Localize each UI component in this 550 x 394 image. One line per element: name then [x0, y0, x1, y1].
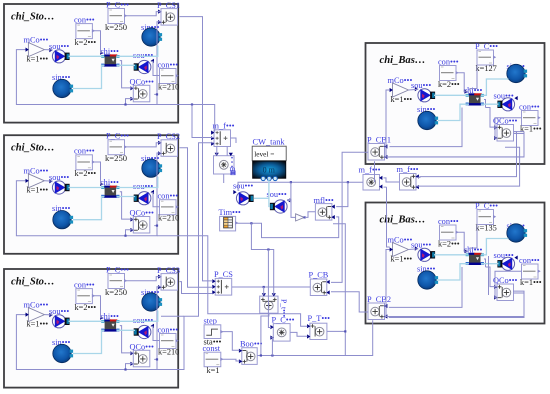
wire stub inside box3 on same net: [161, 315, 184, 317]
svg-text:k=1•••: k=1•••: [520, 278, 542, 287]
constant con3_2: [160, 334, 177, 349]
source pump sou2_1: [52, 181, 65, 194]
svg-text:sou•••: sou•••: [233, 182, 253, 191]
wire feedback to mCon (bas2): [386, 250, 390, 317]
sink sin2_1: [142, 159, 160, 177]
adder P_CS3: [161, 274, 178, 291]
group box chi_Sto1: [4, 4, 178, 123]
wire mfl area signal down to main line: [333, 224, 345, 356]
sink sin1_1: [142, 28, 160, 46]
chiller chi (bas2): [468, 253, 475, 255]
junction m_f1 line at 290.9: [290, 181, 292, 183]
wire QCo out right (bas1): [385, 134, 524, 158]
svg-text:k=1•••: k=1•••: [27, 186, 49, 195]
constant con1_2: [160, 69, 177, 84]
fluid line chi to sin1 (bas1): [481, 79, 509, 95]
wire QCo2 to P_CS2: [157, 153, 161, 226]
wire chi_Bas1 signal to m_f2 in2: [416, 147, 519, 186]
wire feedback tap to QCon1 minus input: [126, 99, 134, 105]
adder P_CS2: [161, 140, 178, 157]
fluid line sou1 to chi (bas1): [434, 94, 469, 96]
svg-text:sou•••: sou•••: [133, 182, 153, 191]
wire m_f2 out to m_f1 in1: [384, 178, 400, 182]
svg-text:mCo•••: mCo•••: [24, 167, 49, 176]
source pump sou3_1: [52, 315, 65, 328]
constant const: [204, 352, 221, 367]
svg-text:m_f•••: m_f•••: [213, 122, 235, 131]
source pump sou1 (bas1): [418, 89, 431, 102]
fluid line chi1 to sou1_2: [117, 64, 136, 66]
svg-text:P_T•••: P_T•••: [308, 314, 331, 323]
multisum m_f: [214, 130, 231, 147]
svg-text:k=135: k=135: [476, 224, 497, 233]
group box chi_Bas1: [366, 43, 545, 164]
gain mCon1: [28, 43, 44, 57]
source pump sou1_1: [52, 50, 65, 63]
wire feedback loop to mCon1: [16, 50, 157, 105]
sink sin2_2: [53, 211, 71, 229]
wire mCon2 to sou2_1: [45, 180, 53, 182]
adder m_f2 (mirrored): [400, 174, 417, 191]
fluid line sin2 to chi (bas2): [438, 264, 469, 280]
svg-text:level =: level =: [254, 150, 274, 159]
wire P_C to chi (bas2): [470, 225, 477, 251]
fluid line sou2_1 to chi2: [69, 187, 105, 189]
wire box3 lower signal up to m_f in3: [157, 143, 214, 370]
svg-text:k=127: k=127: [476, 64, 497, 73]
group box chi_Sto2: [4, 135, 178, 254]
wire P_T out joins vertical: [327, 330, 345, 332]
wire chi_Bas1 QCo to P_CB1 in2: [390, 132, 525, 157]
gain mCon3: [28, 308, 44, 322]
fluid line sin3_2 to chi3: [73, 330, 105, 353]
svg-text:sou•••: sou•••: [411, 241, 431, 250]
adder P_t rotated: [260, 296, 278, 313]
wire con2_1 to chi2: [93, 162, 104, 184]
svg-text:sou•••: sou•••: [133, 316, 153, 325]
wire m_f1 out long line to pumps: [238, 182, 363, 190]
junction m_f1 line at 347.9: [347, 181, 349, 183]
long signal line Boo to chi_Bas2: [258, 320, 373, 355]
wire P_CB1 bottom port down to m_f line: [374, 161, 376, 182]
wire into triangle input: [287, 200, 295, 218]
junction long line 1: [260, 354, 262, 356]
svg-text:sou•••: sou•••: [411, 81, 431, 90]
wire con2 to QCo (bas1): [495, 118, 522, 139]
fluid line chi to sin1 (bas2): [481, 239, 509, 255]
source pump sou3_2: [138, 325, 151, 338]
wire chi1 P out to QCon1: [120, 61, 134, 88]
svg-text:CW_tank: CW_tank: [253, 138, 286, 147]
constant con1 (bas1): [440, 66, 457, 81]
wire branch to P_C product in1: [268, 250, 271, 328]
gain mCon2: [28, 174, 44, 188]
fluid line chi2 to sou2_2: [117, 196, 136, 198]
dots beside product m: [231, 157, 233, 171]
group box chi_Bas2: [366, 203, 545, 324]
constant con2_1: [76, 155, 93, 170]
junction Tim line: [250, 222, 252, 224]
wire QCo1 to P_CS1: [157, 22, 161, 95]
fluid line sin2 to chi (bas1): [438, 104, 469, 120]
source pump sou1 (bas2): [418, 248, 431, 261]
svg-text:k=210: k=210: [158, 348, 179, 357]
wire chi_Bas2 QCo to P_CB2 in2: [389, 291, 524, 317]
sink sin3_2: [53, 344, 71, 362]
svg-text:k=210: k=210: [158, 83, 179, 92]
wire chi_Bas1 chi to P_CB1 in1: [390, 108, 463, 147]
fluid line chi1 to sin1_1: [117, 46, 158, 57]
wire feedback tap to QCon3 minus input: [126, 364, 134, 370]
chiller chi (bas1): [468, 93, 475, 95]
adder P_CB1: [368, 144, 385, 161]
constant P_C2: [108, 140, 125, 155]
sink sin1_2: [53, 79, 71, 97]
adder QCon2: [133, 217, 150, 234]
wire P_C1 to P_CS1: [125, 12, 161, 16]
wire con2_2 to sou2_2: [151, 193, 160, 207]
svg-text:Tim•••: Tim•••: [219, 208, 241, 217]
wire P_CB2 out to middle P_CB in2: [331, 292, 368, 312]
gain mCon (bas2): [393, 243, 409, 257]
wire feedback loop to mCon3: [16, 315, 157, 370]
wire up to P_C product in2: [271, 338, 272, 356]
wire Tim branch down: [251, 223, 273, 294]
svg-text:mCo•••: mCo•••: [24, 301, 49, 310]
junction long line 2: [271, 354, 273, 356]
wire chi_Bas2 chi to P_CB2 in1: [389, 267, 462, 307]
svg-text:k=1•••: k=1•••: [27, 55, 49, 64]
wire P_CS3 out to P_CS in3: [180, 282, 213, 294]
adder QCon1: [133, 85, 150, 102]
fluid line sou3_1 to chi3: [69, 320, 105, 322]
wire con1_1 to chi1: [93, 31, 104, 53]
constant P_C (bas1): [477, 50, 494, 65]
wire QCo out right (bas2): [385, 293, 524, 317]
svg-text:Boo•••: Boo•••: [240, 339, 263, 348]
wire P_C2 to P_CS2: [125, 143, 161, 147]
source pump sou2_2: [138, 192, 151, 205]
fluid line tank to pumps: [269, 179, 270, 207]
svg-text:P_CS: P_CS: [214, 270, 233, 279]
sink sin1 (bas1): [507, 64, 525, 82]
product m block: [214, 156, 235, 174]
svg-text:m_f•••: m_f•••: [397, 165, 419, 174]
svg-text:k=1•••: k=1•••: [520, 125, 542, 134]
wire chi P out down (bas1): [484, 100, 486, 108]
svg-text:k=1: k=1: [207, 366, 220, 375]
svg-text:k=1•••: k=1•••: [391, 255, 413, 264]
wire mfl out to triangle: [305, 212, 315, 218]
constant con3_1: [76, 289, 93, 304]
junction for P_t adder in1: [263, 286, 265, 288]
wire con1_2 to sou1_2: [151, 61, 160, 75]
wire P_CS1 out to P_CS in1 trunk: [180, 17, 213, 281]
wire chi to QCo (bas1): [486, 108, 498, 128]
wire box2 lower signal to P_T in1: [157, 236, 308, 327]
wire branch to m_f in2: [192, 105, 214, 138]
adder P_CS1: [161, 9, 178, 26]
wire mCon to sou1 (bas2): [409, 248, 419, 251]
svg-text:k=250: k=250: [105, 153, 127, 163]
wire P_C3 to P_CS3: [125, 277, 161, 281]
gain triangle small: [296, 214, 305, 221]
wire con1 to chi (bas2): [457, 232, 468, 251]
sink sin3_1: [142, 293, 160, 311]
svg-text:step: step: [204, 317, 217, 326]
svg-text:k=1•••: k=1•••: [391, 95, 413, 104]
wire branch to sou_m2 input: [287, 182, 291, 200]
svg-text:chi_Sto…: chi_Sto…: [11, 12, 55, 23]
source pump sou2 (bas1): [501, 98, 514, 111]
wire chi to QCo (bas2): [486, 267, 498, 287]
junction at triangle output: [304, 216, 306, 218]
fluid line sin2_2 to chi2: [73, 197, 105, 220]
fluid line chi to sou2 (bas1): [481, 103, 499, 105]
chiller chi2: [104, 186, 111, 188]
junction box1 signal branch: [191, 103, 193, 105]
source pump sou1_2: [138, 60, 151, 73]
wire mCon3 to sou3_1: [45, 314, 53, 316]
adder QCo (bas2): [497, 284, 514, 301]
adder QCon3: [133, 350, 150, 367]
wire chi_Bas1 QCo to m_f2 in1: [416, 132, 516, 178]
wire P_C product out to P_T in2: [290, 332, 307, 336]
wire product m out down: [223, 174, 225, 183]
adder QCo (bas1): [497, 125, 514, 142]
constant con1_1: [76, 24, 93, 39]
icon small grid: [231, 171, 236, 176]
constant con2_2: [160, 200, 177, 215]
gain mCon (bas1): [393, 83, 409, 97]
wire mCon to sou1 (bas1): [409, 88, 419, 91]
wire chi P out down (bas2): [484, 259, 486, 267]
svg-text:mCo•••: mCo•••: [388, 76, 413, 85]
vertical into chi_Bas2 area: [488, 256, 490, 295]
timetable Tim: [220, 216, 236, 231]
wire chi3 P out to QCon3: [120, 326, 134, 353]
svg-text:k=210: k=210: [158, 214, 179, 223]
adder P_CB2: [368, 303, 385, 320]
wire con2 to QCo (bas2): [495, 271, 522, 298]
svg-text:chi_Sto…: chi_Sto…: [11, 143, 55, 154]
wire step to Boo in1: [221, 332, 240, 351]
svg-text:chi_Sto…: chi_Sto…: [11, 277, 55, 288]
fluid line chi2 to sin2_1: [117, 177, 158, 188]
adder P_T: [310, 323, 327, 339]
multisum P_CS: [215, 278, 232, 295]
wire P_CB1 out to middle P_CB in1: [331, 152, 368, 282]
wire con3_2 to sou3_2: [151, 326, 160, 340]
wire box1 lower signal to m_f in1: [157, 105, 215, 132]
constant P_C1: [108, 9, 125, 24]
svg-text:k=2•••: k=2•••: [438, 80, 460, 89]
svg-text:mCo•••: mCo•••: [24, 36, 49, 45]
wire chi2 P out to QCon2: [120, 192, 134, 219]
sink sin2 (bas2): [418, 271, 436, 289]
source pump sou_m2: [274, 200, 287, 213]
svg-text:k=2•••: k=2•••: [438, 240, 460, 249]
constant con2 (bas2): [522, 264, 539, 279]
wire down to P_t adder in1: [263, 287, 265, 295]
svg-text:mCo•••: mCo•••: [388, 236, 413, 245]
svg-text:k=250: k=250: [105, 22, 127, 32]
junction P_T out: [344, 330, 346, 332]
wire P_t adder out down to main line: [261, 313, 269, 355]
wire con1 to chi (bas1): [457, 73, 468, 92]
wire mCon1 to sou1_1: [45, 49, 53, 51]
step block: [204, 325, 221, 339]
svg-text:k=2•••: k=2•••: [75, 38, 97, 47]
svg-text:0 m: 0 m: [263, 166, 276, 175]
adder P_CB (mirrored): [310, 279, 327, 296]
wire down from m_f1 in2 to chi_Bas2 mCon: [384, 186, 387, 188]
svg-text:k=2•••: k=2•••: [75, 303, 97, 312]
wire QCo3 to P_CS3: [157, 287, 161, 360]
svg-text:k=2•••: k=2•••: [75, 169, 97, 178]
wire P_C to chi (bas1): [470, 66, 477, 92]
svg-text:m_f•••: m_f•••: [359, 166, 381, 175]
adder Boo: [242, 348, 257, 365]
sink sin1 (bas2): [507, 224, 525, 242]
fluid line chi to sou2 (bas2): [481, 263, 499, 265]
constant con2 (bas1): [522, 111, 539, 126]
source pump sou_m1: [236, 192, 249, 205]
wire m_f out stub: [231, 138, 236, 143]
wire P_CS2 out to P_CS in2 trunk: [180, 148, 213, 287]
fluid line sou1_1 to chi1: [69, 55, 105, 57]
svg-text:k=1•••: k=1•••: [27, 320, 49, 329]
fluid line chi3 to sin3_1: [117, 311, 158, 322]
svg-text:P_C•••: P_C•••: [272, 315, 295, 324]
adder mfl (mirrored): [315, 204, 332, 221]
svg-text:sou•••: sou•••: [133, 51, 153, 60]
product P_C input arrows: [270, 325, 273, 329]
svg-text:sou•••: sou•••: [267, 190, 287, 199]
svg-text:chi_Bas…: chi_Bas…: [380, 55, 426, 66]
wire const to Boo in2: [221, 359, 240, 361]
junction Tim branch for P_C product: [267, 248, 269, 250]
group box chi_Sto3: [4, 269, 178, 388]
wire P_CS out and P_CB out shared line: [232, 286, 310, 288]
fluid line chi3 to sou3_2: [117, 329, 136, 331]
constant P_C3: [108, 274, 125, 289]
wire m_f to product m inputs: [216, 147, 218, 156]
svg-text:const: const: [203, 344, 221, 353]
fluid line sin1_2 to chi1: [73, 65, 105, 88]
wire con3_1 to chi3: [93, 296, 104, 318]
wire feedback loop to mCon2: [16, 181, 157, 236]
source pump sou2 (bas2): [501, 257, 514, 270]
svg-text:P_CB: P_CB: [309, 271, 329, 280]
fluid line sou1 to chi (bas2): [434, 254, 469, 256]
chiller chi3: [104, 319, 111, 321]
wire Tim out with junction: [236, 217, 339, 238]
svg-text:k=250: k=250: [105, 287, 127, 297]
product P_C: [273, 324, 290, 342]
chiller chi1: [104, 54, 111, 56]
constant con1 (bas2): [440, 225, 457, 240]
sink sin2 (bas1): [418, 111, 436, 129]
wire branch to mfl in1: [336, 182, 348, 206]
wire feedback tap to QCon2 minus input: [126, 230, 134, 236]
constant P_C (bas2): [477, 210, 494, 225]
tank CW_tank: [252, 146, 286, 161]
wire feedback to mCon (bas1): [386, 90, 390, 157]
